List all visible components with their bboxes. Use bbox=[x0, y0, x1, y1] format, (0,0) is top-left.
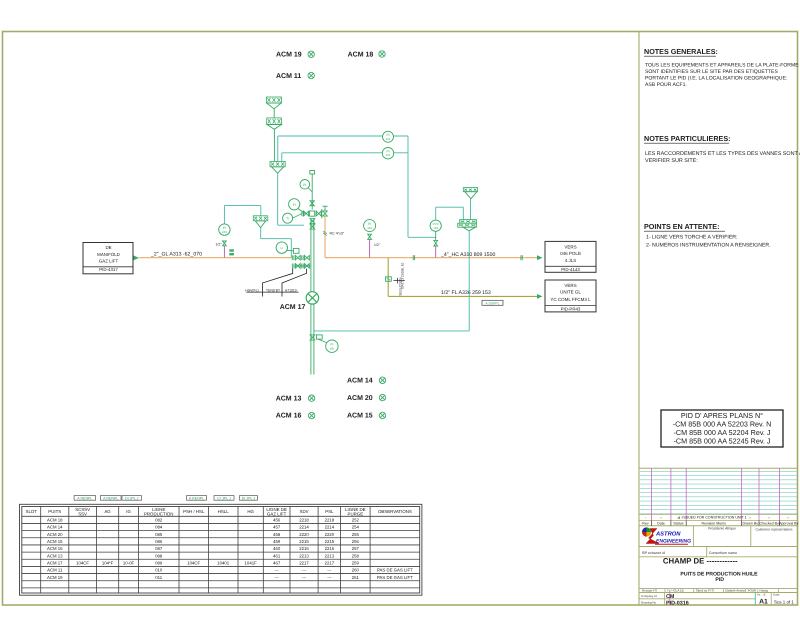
collector 1 bbox=[270, 162, 285, 174]
svg-text:Pu... /S: Pu... /S bbox=[757, 594, 766, 597]
svg-text:Drawn By: Drawn By bbox=[743, 522, 759, 526]
svg-text:PRODUCTION: PRODUCTION bbox=[144, 511, 174, 516]
vent funnel 3 bbox=[463, 188, 477, 220]
svg-text:104*F: 104*F bbox=[102, 560, 114, 565]
gas lift injection line bbox=[314, 231, 469, 331]
svg-text:MANIFOLD: MANIFOLD bbox=[97, 252, 120, 257]
svg-text:255: 255 bbox=[352, 532, 360, 537]
svg-text:-CM 85B 000 AA 52245 Rev. J: -CM 85B 000 AA 52245 Rev. J bbox=[674, 437, 771, 446]
svg-text:ACM 20: ACM 20 bbox=[47, 532, 63, 537]
pressure instrument PI-1 bbox=[383, 131, 394, 142]
svg-text:ACM 17: ACM 17 bbox=[280, 304, 306, 311]
title block small fields row bbox=[642, 589, 768, 593]
well data table grid bbox=[22, 507, 420, 594]
svg-text:---: --- bbox=[302, 575, 307, 580]
reference drawings box bbox=[661, 410, 783, 447]
svg-text:-ISSUED FOR CONSTRUCTION UNIT: -ISSUED FOR CONSTRUCTION UNIT 1 bbox=[681, 515, 746, 519]
svg-text:Customer representative: Customer representative bbox=[755, 528, 792, 532]
scale cell bbox=[773, 594, 794, 605]
pressure instrument PI-5 bbox=[289, 199, 305, 214]
drawing title text bbox=[663, 556, 758, 583]
sheet size cell bbox=[757, 594, 768, 606]
svg-text:HSV(FL): HSV(FL) bbox=[245, 288, 258, 292]
svg-text:SDV: SDV bbox=[300, 509, 309, 514]
svg-text:GAZ LIFT: GAZ LIFT bbox=[267, 511, 287, 516]
svg-text:ACM 17: ACM 17 bbox=[47, 560, 63, 565]
svg-text:SSV: SSV bbox=[78, 511, 87, 516]
svg-text:ENGINEERING: ENGINEERING bbox=[656, 539, 691, 545]
choke outlet pipe bbox=[323, 216, 327, 258]
svg-text:A1: A1 bbox=[759, 599, 768, 606]
source box from gas lift manifold bbox=[83, 243, 133, 274]
svg-text:PI: PI bbox=[303, 183, 306, 187]
svg-text:Company Id: Company Id bbox=[641, 594, 657, 598]
wire vent2 to collector 1 bbox=[273, 129, 275, 161]
svg-text:1- LIGNE VERS TORCHE A VERIFIE: 1- LIGNE VERS TORCHE A VERIFIER: bbox=[646, 235, 737, 241]
well symbol ACM 17 bbox=[306, 292, 318, 304]
svg-text:ACM 18: ACM 18 bbox=[348, 51, 374, 58]
svg-text:FOUR 1 Norog: FOUR 1 Norog bbox=[748, 589, 768, 593]
svg-text:ACM 11: ACM 11 bbox=[47, 568, 63, 573]
svg-text:CM: CM bbox=[666, 594, 675, 600]
notes column separator line bbox=[638, 32, 640, 606]
svg-text:ACM 18: ACM 18 bbox=[47, 518, 63, 523]
svg-text:010: 010 bbox=[155, 568, 163, 573]
svg-text:A SUPPL: A SUPPL bbox=[485, 301, 499, 305]
svg-text:2218: 2218 bbox=[325, 518, 335, 523]
svg-text:2215: 2215 bbox=[325, 539, 335, 544]
svg-text:2- NUMEROS INSTRUMENTATION A R: 2- NUMEROS INSTRUMENTATION A RENSEIGNER. bbox=[646, 243, 771, 249]
check valve glyph bbox=[229, 249, 234, 255]
svg-text:ACM 19: ACM 19 bbox=[276, 52, 302, 59]
svg-text:IG: IG bbox=[126, 509, 131, 514]
svg-text:PORTANT LE PID (I.E. LA LOCALI: PORTANT LE PID (I.E. LA LOCALISATION GEO… bbox=[645, 76, 787, 82]
wire instrument loop left bbox=[224, 206, 260, 224]
pressure instrument PI-2 bbox=[382, 148, 393, 159]
svg-text:257: 257 bbox=[352, 546, 360, 551]
a suppl tag box bbox=[482, 300, 503, 305]
svg-text:HSLL: HSLL bbox=[218, 509, 230, 514]
svg-text:260: 260 bbox=[352, 568, 360, 573]
instrument valve PI-3 bbox=[223, 241, 227, 246]
swab valve cap bbox=[310, 171, 315, 210]
manifold destination box bbox=[545, 241, 596, 272]
svg-text:2213: 2213 bbox=[299, 553, 309, 558]
annulus signal line upper bbox=[278, 136, 436, 237]
svg-text:TI: TI bbox=[286, 217, 289, 221]
impulse line gas lift valve bbox=[435, 246, 437, 258]
svg-text:467: 467 bbox=[273, 560, 281, 565]
flange tick on production line B bbox=[521, 255, 522, 260]
svg-text:162: 162 bbox=[386, 153, 391, 157]
svg-text:256: 256 bbox=[352, 539, 360, 544]
svg-text:2215: 2215 bbox=[299, 539, 309, 544]
well marker ACM 19 bbox=[276, 51, 314, 59]
flow arrow from source box bbox=[134, 256, 140, 261]
svg-text:---: --- bbox=[275, 568, 280, 573]
well marker ACM 14 bbox=[347, 377, 386, 384]
svg-text:2214: 2214 bbox=[299, 525, 309, 530]
svg-text:2220: 2220 bbox=[299, 532, 309, 537]
svg-text:Elabork Anono: Elabork Anono bbox=[725, 589, 745, 593]
well marker ACM 15 bbox=[347, 412, 386, 419]
svg-text:4.JLS: 4.JLS bbox=[565, 258, 577, 263]
svg-text:---: --- bbox=[327, 568, 332, 573]
svg-text:PSH / HSL: PSH / HSL bbox=[183, 509, 205, 514]
svg-text:084: 084 bbox=[155, 525, 163, 530]
svg-text:252: 252 bbox=[352, 518, 360, 523]
svg-text:2218: 2218 bbox=[299, 518, 309, 523]
svg-text:VERS: VERS bbox=[564, 245, 576, 250]
svg-text:10-0F: 10-0F bbox=[123, 560, 135, 565]
svg-text:161: 161 bbox=[386, 137, 391, 141]
svg-text:Rev: Rev bbox=[642, 522, 649, 526]
svg-text:Approval By: Approval By bbox=[779, 522, 799, 526]
well marker ACM 16 bbox=[276, 412, 315, 419]
svg-text:UNITE GL: UNITE GL bbox=[560, 289, 581, 294]
svg-text:PID-0316: PID-0316 bbox=[666, 600, 689, 606]
svg-text:Status: Status bbox=[673, 522, 683, 526]
revision table dashes row bbox=[645, 515, 790, 520]
svg-text:Consortium name: Consortium name bbox=[709, 551, 737, 555]
impulse line PI-7 bbox=[369, 239, 371, 257]
svg-text:258: 258 bbox=[352, 553, 360, 558]
svg-text:---: --- bbox=[327, 575, 332, 580]
well marker ACM 20 bbox=[347, 394, 386, 401]
svg-text:A RENPL: A RENPL bbox=[103, 496, 118, 500]
svg-text:GAZ L3 2SDBL 10: GAZ L3 2SDBL 10 bbox=[401, 262, 405, 289]
svg-text:Presidente Afrique: Presidente Afrique bbox=[708, 527, 736, 531]
notes generales heading bbox=[644, 47, 718, 56]
company logo bbox=[642, 527, 691, 544]
tree cross block bbox=[302, 211, 321, 216]
svg-text:PID: PID bbox=[715, 577, 724, 583]
purge line valve bbox=[386, 277, 392, 282]
svg-text:088: 088 bbox=[155, 553, 163, 558]
svg-text:Recupe FS: Recupe FS bbox=[642, 589, 657, 593]
pressure instrument PI-6 bbox=[283, 213, 302, 223]
svg-text:BP extranet id: BP extranet id bbox=[642, 551, 665, 555]
svg-text:HG: HG bbox=[247, 509, 254, 514]
flange tick on production line A bbox=[413, 255, 414, 260]
svg-text:ACM 20: ACM 20 bbox=[347, 395, 373, 402]
level instrument LI bbox=[276, 242, 299, 253]
signal line to gas lift valve bbox=[436, 207, 464, 220]
svg-text:---: --- bbox=[275, 575, 280, 580]
wire vent1 to vent2 bbox=[273, 109, 275, 118]
svg-text:104CF: 104CF bbox=[187, 560, 200, 565]
svg-text:046 POLB: 046 POLB bbox=[560, 251, 581, 256]
table tag label boxes bbox=[74, 496, 257, 501]
production pipe line right bbox=[325, 257, 537, 259]
svg-text:Scale: Scale bbox=[773, 594, 780, 597]
svg-text:ASTRON: ASTRON bbox=[655, 530, 681, 537]
svg-text:Date: Date bbox=[657, 522, 665, 526]
gas lift meter stack bbox=[458, 220, 477, 231]
swab valve bbox=[310, 201, 314, 206]
svg-text:Drawing No: Drawing No bbox=[641, 601, 656, 605]
notes particulieres body text bbox=[645, 151, 800, 164]
svg-text:457: 457 bbox=[273, 525, 281, 530]
svg-text:VERIFIER SUR SITE:: VERIFIER SUR SITE: bbox=[645, 158, 698, 164]
svg-text:103: 103 bbox=[222, 230, 227, 234]
pressure instrument PI-3 bbox=[219, 224, 230, 235]
svg-text:1041F: 1041F bbox=[245, 560, 258, 565]
svg-text:NOTES PARTICULIERES:: NOTES PARTICULIERES: bbox=[644, 134, 731, 143]
project id row bbox=[642, 551, 737, 555]
svg-text:ACM 15: ACM 15 bbox=[47, 539, 63, 544]
svg-text:_4"_HC A310 809 1500: _4"_HC A310 809 1500 bbox=[440, 252, 495, 258]
flow arrow to flare box bbox=[537, 294, 543, 299]
svg-text:ACM 13: ACM 13 bbox=[47, 553, 63, 558]
svg-text:ACM 14: ACM 14 bbox=[347, 378, 373, 385]
well data table header bbox=[26, 507, 412, 517]
approval cells labels bbox=[708, 527, 793, 532]
annulus signal line lower bbox=[282, 153, 408, 162]
wellhead production tubing bbox=[311, 218, 314, 374]
svg-text:POINTS EN ATTENTE:: POINTS EN ATTENTE: bbox=[644, 222, 719, 231]
svg-text:1/2": 1/2" bbox=[374, 243, 381, 247]
purge line bbox=[388, 258, 537, 296]
svg-text:085: 085 bbox=[155, 532, 163, 537]
svg-text:ACM 13: ACM 13 bbox=[276, 395, 302, 402]
svg-text:105: 105 bbox=[330, 346, 335, 350]
well data table border bbox=[20, 504, 422, 595]
svg-text:CHAMP DE ------------: CHAMP DE ------------ bbox=[663, 556, 738, 565]
collector 2 bbox=[253, 216, 267, 228]
svg-text:DE: DE bbox=[105, 245, 111, 250]
svg-text:2220: 2220 bbox=[325, 532, 335, 537]
purge line vent mark bbox=[394, 278, 405, 284]
svg-text:A RENPL: A RENPL bbox=[77, 496, 92, 500]
svg-text:PID-PR43: PID-PR43 bbox=[561, 307, 581, 312]
svg-text:1/2" FL A336 259 153: 1/2" FL A336 259 153 bbox=[441, 290, 491, 296]
revision table header row bbox=[642, 522, 798, 526]
svg-text:104: 104 bbox=[433, 226, 438, 230]
svg-text:089: 089 bbox=[155, 560, 163, 565]
svg-text:TOUS LES EQUIPEMENTS ET APPARE: TOUS LES EQUIPEMENTS ET APPAREILS DE LA … bbox=[645, 63, 799, 69]
svg-text:OBSERVATIONS: OBSERVATIONS bbox=[378, 509, 412, 514]
svg-text:104: 104 bbox=[367, 226, 372, 230]
flowline fittings row 2 bbox=[292, 264, 311, 269]
points en attente body text bbox=[646, 235, 771, 249]
svg-text:104CF: 104CF bbox=[76, 560, 89, 565]
svg-text:1/2": 1/2" bbox=[216, 243, 223, 247]
svg-text:ASB POUR ACF1.: ASB POUR ACF1. bbox=[645, 82, 687, 88]
svg-text:2216: 2216 bbox=[299, 546, 309, 551]
impulse line PI-3 bbox=[223, 246, 225, 258]
svg-text:ACM 16: ACM 16 bbox=[47, 546, 63, 551]
svg-text:DI JPL J: DI JPL J bbox=[242, 496, 256, 500]
svg-text:_2"_GL A313 -62_070: _2"_GL A313 -62_070 bbox=[150, 251, 202, 257]
svg-text:Sca 1 of 1: Sca 1 of 1 bbox=[774, 599, 794, 604]
flowline fittings row 1 bbox=[292, 255, 309, 260]
revision table grid bbox=[639, 468, 798, 526]
svg-text:Checked By: Checked By bbox=[760, 522, 780, 526]
svg-text:VERS: VERS bbox=[564, 283, 576, 288]
svg-text:LES RACCORDEMENTS ET LES TYPES: LES RACCORDEMENTS ET LES TYPES DES VANNE… bbox=[645, 151, 800, 157]
title block grid bbox=[639, 547, 798, 606]
svg-text:PID-4317: PID-4317 bbox=[99, 267, 118, 272]
notes generales body text bbox=[645, 63, 799, 89]
wire collector1 to tree annulus bbox=[278, 173, 304, 225]
pressure instrument PI-7 bbox=[364, 220, 376, 232]
svg-text:259: 259 bbox=[352, 560, 360, 565]
svg-text:ACM 15: ACM 15 bbox=[347, 413, 373, 420]
logo cell borders bbox=[639, 526, 798, 547]
svg-text:PUITS: PUITS bbox=[48, 509, 61, 514]
drawing number cell bbox=[641, 600, 689, 606]
svg-text:AG: AG bbox=[104, 509, 111, 514]
svg-text:A71010: A71010 bbox=[285, 288, 297, 292]
well marker ACM 18 bbox=[348, 51, 386, 59]
gas lift valve stem bbox=[435, 231, 437, 240]
svg-text:Revision Memo: Revision Memo bbox=[702, 522, 727, 526]
company id cell bbox=[641, 594, 675, 600]
svg-text:Stock co PTS: Stock co PTS bbox=[696, 589, 714, 593]
annulus access valve bbox=[310, 335, 327, 343]
vent funnel 1 bbox=[266, 97, 281, 109]
svg-text:461: 461 bbox=[273, 553, 281, 558]
svg-text:ACM 11: ACM 11 bbox=[276, 73, 301, 80]
instrument callout leaders bbox=[246, 268, 306, 296]
svg-text:456: 456 bbox=[273, 518, 281, 523]
wing valve with stem bbox=[322, 206, 328, 218]
well marker ACM 13 bbox=[276, 395, 315, 402]
svg-text:011: 011 bbox=[155, 575, 162, 580]
gas lift pipe line left bbox=[139, 257, 292, 259]
svg-text:PAS DE GAS LIFT: PAS DE GAS LIFT bbox=[377, 575, 413, 580]
svg-text:YC COML FFCM3 L: YC COML FFCM3 L bbox=[550, 297, 591, 302]
svg-text:459: 459 bbox=[273, 539, 281, 544]
svg-text:254: 254 bbox=[352, 525, 360, 530]
pressure instrument PI-4 bbox=[300, 180, 312, 193]
svg-text:DI JPL J: DI JPL J bbox=[125, 496, 139, 500]
svg-text:2216: 2216 bbox=[325, 546, 335, 551]
svg-text:TENS'BT: TENS'BT bbox=[266, 288, 280, 292]
svg-text:087: 087 bbox=[155, 546, 163, 551]
vent funnel 2 bbox=[267, 118, 282, 129]
flow arrow to manifold box bbox=[537, 255, 543, 260]
instrument valve PI-7 bbox=[368, 234, 372, 239]
svg-text:RC 4"x3": RC 4"x3" bbox=[330, 231, 345, 235]
wire collector2 down bbox=[261, 228, 292, 258]
svg-text:2217: 2217 bbox=[299, 560, 309, 565]
svg-text:082: 082 bbox=[155, 518, 163, 523]
svg-text:PAS DE GAS LIFT: PAS DE GAS LIFT bbox=[377, 568, 413, 573]
svg-text:ACM 14: ACM 14 bbox=[47, 525, 63, 530]
svg-text:261: 261 bbox=[352, 575, 360, 580]
svg-text:2217: 2217 bbox=[325, 560, 335, 565]
pressure instrument PI-8 bbox=[326, 340, 338, 352]
svg-text:SLOT: SLOT bbox=[26, 509, 38, 514]
gas lift control valve bbox=[430, 220, 441, 231]
svg-text:10401: 10401 bbox=[217, 560, 230, 565]
svg-text:458: 458 bbox=[273, 532, 281, 537]
points en attente heading bbox=[644, 222, 725, 231]
svg-text:A RENPL: A RENPL bbox=[189, 496, 204, 500]
svg-text:ACM 16: ACM 16 bbox=[276, 413, 302, 420]
svg-text:SONT IDENTIFIES SUR LE SITE PA: SONT IDENTIFIES SUR LE SITE PAR DES ETIQ… bbox=[645, 69, 778, 75]
gas lift valve body bbox=[434, 240, 438, 246]
svg-text:PSL: PSL bbox=[325, 509, 334, 514]
flare destination box bbox=[545, 280, 596, 312]
svg-text:-d: -d bbox=[677, 515, 681, 520]
svg-text:PID-4143: PID-4143 bbox=[561, 267, 580, 272]
well data table rows bbox=[47, 518, 413, 580]
svg-text:ACM 19: ACM 19 bbox=[47, 575, 63, 580]
svg-text:I-L/--GLA 1B: I-L/--GLA 1B bbox=[667, 589, 684, 593]
svg-text:PI: PI bbox=[293, 203, 296, 207]
svg-text:086: 086 bbox=[155, 539, 163, 544]
svg-text:CI JPL J: CI JPL J bbox=[217, 496, 231, 500]
svg-text:---: --- bbox=[302, 568, 307, 573]
callout tag labels bbox=[245, 288, 296, 292]
notes particulieres heading bbox=[644, 134, 731, 143]
svg-text:460: 460 bbox=[273, 546, 281, 551]
svg-text:LI: LI bbox=[280, 246, 283, 250]
svg-text:2214: 2214 bbox=[325, 525, 335, 530]
svg-text:PURGE: PURGE bbox=[348, 511, 364, 516]
well marker ACM 11 bbox=[276, 72, 314, 80]
svg-text:NOTES GENERALES:: NOTES GENERALES: bbox=[644, 47, 718, 56]
master valve on tree bbox=[310, 219, 315, 229]
svg-text:GAZ LIFT: GAZ LIFT bbox=[99, 259, 119, 264]
svg-text:2213: 2213 bbox=[325, 553, 335, 558]
